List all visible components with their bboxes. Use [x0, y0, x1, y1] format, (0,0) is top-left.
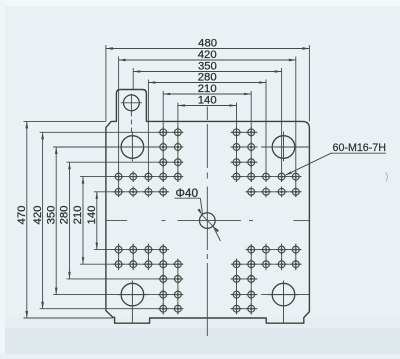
- row line -175 left: [53, 146, 183, 148]
- col line +105 lower: [250, 244, 252, 315]
- tapped hole M16 col-70 row+105: [173, 259, 184, 270]
- col line -175 lower: [132, 244, 134, 271]
- tapped hole M16 col+70 row+175: [231, 289, 242, 300]
- tapped hole M16 col-210 row-70: [113, 186, 124, 197]
- row line +105 right: [231, 263, 302, 265]
- dimension 210 (left): [72, 177, 84, 265]
- tapped hole M16 col+210 row-70: [290, 186, 301, 197]
- tapped hole M16 col+70 row+105: [231, 259, 242, 270]
- row line -140 right: [231, 161, 258, 163]
- row line +175 right big centerline: [261, 294, 309, 296]
- tapped hole M16 col-70 row+140: [173, 274, 184, 285]
- tapped hole M16 col-70 row-105: [173, 171, 184, 182]
- tapped hole M16 col-105 row+210: [158, 303, 169, 314]
- tapped hole M16 col+175 row-70: [276, 186, 287, 197]
- tapped hole M16 col+140 row-105: [261, 171, 272, 182]
- svg-text:480: 480: [198, 38, 217, 50]
- tapped hole M16 col-70 row+175: [173, 289, 184, 300]
- tapped hole M16 col+175 row-105: [276, 171, 287, 182]
- tapped hole M16 col-70 row-175: [173, 142, 184, 153]
- tapped hole M16 col-105 row+140: [158, 274, 169, 285]
- tie-bar hole bottom-left: [117, 281, 148, 323]
- paper light top edge: [0, 0, 400, 6]
- tapped hole M16 col-210 row+105: [113, 259, 124, 270]
- col line -105 lower: [162, 244, 164, 315]
- col ext 480 right: [308, 45, 310, 121]
- vertical centerline seg3: [206, 263, 208, 313]
- tapped hole M16 col+105 row-140: [246, 157, 257, 168]
- tapped hole M16 col+70 row-105: [231, 171, 242, 182]
- svg-text:140: 140: [86, 206, 98, 225]
- tapped hole M16 col-175 row-105: [128, 171, 139, 182]
- tapped hole M16 col-105 row-140: [158, 157, 169, 168]
- tapped hole M16 col+105 row+105: [246, 259, 257, 270]
- tapped hole M16 col+140 row+105: [261, 259, 272, 270]
- dimension 420 (top): [119, 49, 296, 61]
- row line -70 left: [94, 191, 169, 193]
- 470 top extension line: [24, 120, 106, 122]
- col ext 140 right: [236, 103, 238, 183]
- paper light left edge: [0, 0, 5, 354]
- col ext 350 left upper: [132, 68, 134, 90]
- col line -210 lower: [118, 244, 120, 271]
- tapped hole M16 col+140 row-70: [261, 186, 272, 197]
- tapped hole M16 col-105 row-210: [158, 127, 169, 138]
- tapped hole M16 col-140 row+105: [143, 259, 154, 270]
- dimension 280 (top): [148, 72, 266, 84]
- tie-bar hole bottom-right: [268, 281, 299, 323]
- tapped hole M16 col-105 row+105: [158, 259, 169, 270]
- vertical centerline seg2: [206, 124, 208, 168]
- tapped hole M16 col+210 row-105: [290, 171, 301, 182]
- row line -105 right: [231, 176, 302, 178]
- svg-text:420: 420: [198, 49, 217, 61]
- tie-bar hole top-right: [268, 132, 299, 162]
- tab locating hole: [121, 94, 142, 112]
- dimension 210 (top): [163, 83, 251, 95]
- svg-text:470: 470: [16, 206, 28, 225]
- col line -140 lower: [147, 244, 149, 271]
- dimension 140 (left): [86, 192, 98, 250]
- horizontal centerline dash left: [162, 220, 166, 222]
- vertical centerline dash a: [206, 173, 208, 179]
- col ext 480 left: [105, 45, 107, 121]
- tapped hole M16 col+70 row-175: [231, 142, 242, 153]
- row line -140 left: [67, 161, 184, 163]
- tapped hole M16 col-105 row+70: [158, 244, 169, 255]
- svg-text:420: 420: [32, 206, 44, 225]
- tapped hole M16 col-175 row+105: [128, 259, 139, 270]
- svg-text:280: 280: [59, 206, 71, 225]
- tapped hole M16 col+210 row+70: [290, 244, 301, 255]
- tab centerline dashes: [130, 112, 132, 137]
- svg-text:60-M16-7H: 60-M16-7H: [333, 142, 386, 154]
- tapped hole M16 col+175 row+70: [276, 244, 287, 255]
- tapped hole M16 col-140 row+70: [143, 244, 154, 255]
- col ext 420 right: [295, 57, 297, 198]
- row line +210 left: [40, 308, 183, 310]
- row line -70 right: [246, 191, 302, 193]
- row line +175 left: [53, 294, 183, 296]
- horizontal centerline seg left: [106, 220, 127, 222]
- horizontal centerline dash right: [249, 220, 253, 222]
- dimension 350 (top): [133, 61, 281, 73]
- row line -210 right: [231, 131, 258, 133]
- vertical centerline dash b: [206, 254, 208, 259]
- tapped hole M16 col+175 row+105: [276, 259, 287, 270]
- tapped hole M16 col+140 row+70: [261, 244, 272, 255]
- paper shading bottom: [0, 326, 400, 354]
- tapped hole M16 col+210 row+105: [290, 259, 301, 270]
- tapped hole M16 col+105 row+175: [246, 289, 257, 300]
- tapped hole M16 col+70 row+210: [231, 303, 242, 314]
- col line -70 lower: [177, 259, 179, 315]
- svg-text:210: 210: [198, 83, 217, 95]
- dimension 140 (top): [178, 95, 237, 107]
- col ext 210 left: [162, 91, 164, 182]
- tapped hole M16 col-70 row+210: [173, 303, 184, 314]
- col ext 280 left: [147, 80, 149, 183]
- tapped hole M16 col+105 row+140: [246, 274, 257, 285]
- tapped hole M16 col-140 row-105: [143, 171, 154, 182]
- col ext 210 right: [250, 91, 252, 182]
- tapped hole M16 col+70 row-210: [231, 127, 242, 138]
- svg-text:140: 140: [198, 95, 217, 107]
- center hole (phi 40): [200, 213, 216, 229]
- paper shading bottom blend: [0, 318, 400, 328]
- row line -175 right: [231, 146, 258, 148]
- tapped hole M16 col+70 row+140: [231, 274, 242, 285]
- tapped hole M16 col+70 row-140: [231, 157, 242, 168]
- row line +140 left: [67, 278, 184, 280]
- svg-text:350: 350: [45, 206, 57, 225]
- col line +140 lower: [265, 244, 267, 271]
- tapped hole M16 col-70 row-140: [173, 157, 184, 168]
- svg-text:280: 280: [198, 72, 217, 84]
- col ext 140 left: [177, 103, 179, 183]
- tapped hole M16 col+105 row+70: [246, 244, 257, 255]
- vertical centerline bottom: [206, 313, 208, 336]
- col line +175 lower: [281, 244, 283, 271]
- label phi40 with leader: [175, 186, 221, 241]
- col line +70 lower: [236, 259, 238, 315]
- tapped hole M16 col+105 row+210: [246, 303, 257, 314]
- horizontal centerline seg right: [294, 220, 310, 222]
- plate outline: [106, 90, 310, 324]
- row line +70 left: [94, 249, 169, 251]
- faint scan artifact arc: [386, 173, 388, 182]
- label 60-M16-7H with leader: [285, 142, 386, 175]
- horizontal centerline middle: [178, 220, 242, 222]
- row -175 right big centerline: [261, 146, 309, 148]
- row line -105 left: [80, 176, 183, 178]
- svg-text:210: 210: [72, 206, 84, 225]
- row line +175 right: [231, 294, 258, 296]
- col ext 420 left: [118, 57, 120, 198]
- vertical centerline top: [206, 107, 208, 121]
- tapped hole M16 col-140 row-70: [143, 186, 154, 197]
- tapped hole M16 col-105 row+175: [158, 289, 169, 300]
- tapped hole M16 col+105 row-210: [246, 127, 257, 138]
- 470 bottom extension line: [24, 317, 114, 319]
- tapped hole M16 col-105 row-175: [158, 142, 169, 153]
- tapped hole M16 col+105 row-70: [246, 186, 257, 197]
- dimension 350 (left): [45, 147, 57, 295]
- col ext 280 right: [265, 80, 267, 183]
- tapped hole M16 col-210 row-105: [113, 171, 124, 182]
- col line +210 lower: [295, 244, 297, 271]
- svg-text:Φ40: Φ40: [176, 186, 199, 200]
- col ext 350 right: [281, 68, 283, 182]
- dimension 420 (left): [32, 132, 44, 308]
- tapped hole M16 col-105 row-105: [158, 171, 169, 182]
- row line +105 left: [80, 263, 183, 265]
- row line +210 right: [231, 308, 258, 310]
- dimension 470 (left): [16, 121, 28, 318]
- dimension 480 (top): [106, 38, 310, 50]
- dimension 280 (left): [59, 162, 71, 279]
- tapped hole M16 col+105 row-175: [246, 142, 257, 153]
- row line +140 right: [231, 278, 258, 280]
- tapped hole M16 col+105 row-105: [246, 171, 257, 182]
- tie-bar hole top-left: [117, 132, 148, 162]
- tapped hole M16 col-105 row-70: [158, 186, 169, 197]
- row line -210 left: [40, 131, 183, 133]
- tapped hole M16 col-70 row-210: [173, 127, 184, 138]
- vertical centerline main: [206, 187, 208, 251]
- row line +70 right: [246, 249, 302, 251]
- tapped hole M16 col-175 row-70: [128, 186, 139, 197]
- tapped hole M16 col-210 row+70: [113, 244, 124, 255]
- tapped hole M16 col-175 row+70: [128, 244, 139, 255]
